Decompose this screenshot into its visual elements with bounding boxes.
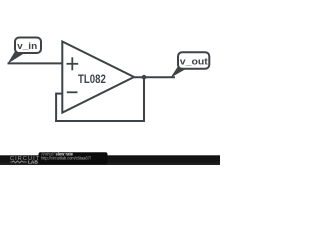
watermark logo resistor zigzag: [11, 161, 27, 163]
svg-text:TL082: TL082: [78, 72, 106, 86]
wire op-amp output to v_out: [134, 76, 175, 78]
op-amp plus marker: [67, 57, 79, 70]
svg-text:v_out: v_out: [180, 56, 209, 67]
CircuitLab watermark bar: [0, 152, 220, 166]
op-amp minus marker: [67, 91, 78, 93]
svg-text:v_in: v_in: [17, 41, 37, 52]
flag v_out: [171, 52, 210, 78]
svg-text:LAB: LAB: [28, 160, 38, 165]
node output junction dot: [142, 75, 147, 80]
op-amp U1 TL082: [62, 42, 134, 113]
wire feedback bottom horizontal: [55, 120, 145, 122]
svg-text:http://circuitlab.com/c6taa67/: http://circuitlab.com/c6taa67/: [41, 156, 92, 161]
flag v_in: [8, 38, 42, 64]
wire feedback left vertical: [55, 93, 57, 122]
wire feedback right vertical: [143, 77, 145, 122]
wire input v_in to op-amp non-inverting input: [8, 62, 63, 64]
wire inverting input stub: [56, 93, 62, 95]
